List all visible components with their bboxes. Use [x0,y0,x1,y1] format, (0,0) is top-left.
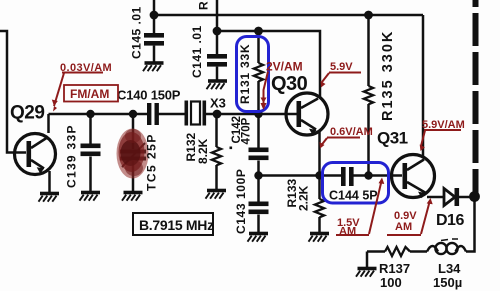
svg-text:R131 33K: R131 33K [238,44,252,104]
svg-text:C145 .01: C145 .01 [130,6,144,59]
svg-text:X3: X3 [210,96,226,111]
svg-text:R: R [197,1,211,10]
svg-text:Q31: Q31 [377,129,408,148]
svg-text:8.2K: 8.2K [196,138,210,164]
svg-text:R135 330K: R135 330K [380,30,396,121]
svg-text:C144 5P: C144 5P [329,189,378,203]
svg-text:C140 150P: C140 150P [117,88,181,103]
svg-text:470P: 470P [241,117,253,144]
svg-text:150µ: 150µ [433,275,462,290]
svg-text:Q29: Q29 [10,103,44,124]
svg-text:TC5 25P: TC5 25P [145,133,159,191]
svg-text:5.9V: 5.9V [330,61,353,73]
svg-text:D16: D16 [436,212,464,229]
svg-text:2.2K: 2.2K [297,185,311,211]
svg-text:2V/AM: 2V/AM [266,60,303,74]
svg-text:AM: AM [395,221,412,233]
svg-text:B.7915 MHz: B.7915 MHz [139,217,214,233]
svg-text:100: 100 [380,275,402,290]
svg-text:Q30: Q30 [271,73,308,95]
svg-text:L34: L34 [438,261,461,276]
svg-text:C139 33P: C139 33P [65,124,79,188]
svg-text:R137: R137 [379,261,410,276]
svg-text:0.6V/AM: 0.6V/AM [330,126,373,138]
svg-text:FM/AM: FM/AM [70,87,109,101]
svg-text:C141 .01: C141 .01 [190,25,204,78]
svg-text:C143 100P: C143 100P [234,169,248,234]
